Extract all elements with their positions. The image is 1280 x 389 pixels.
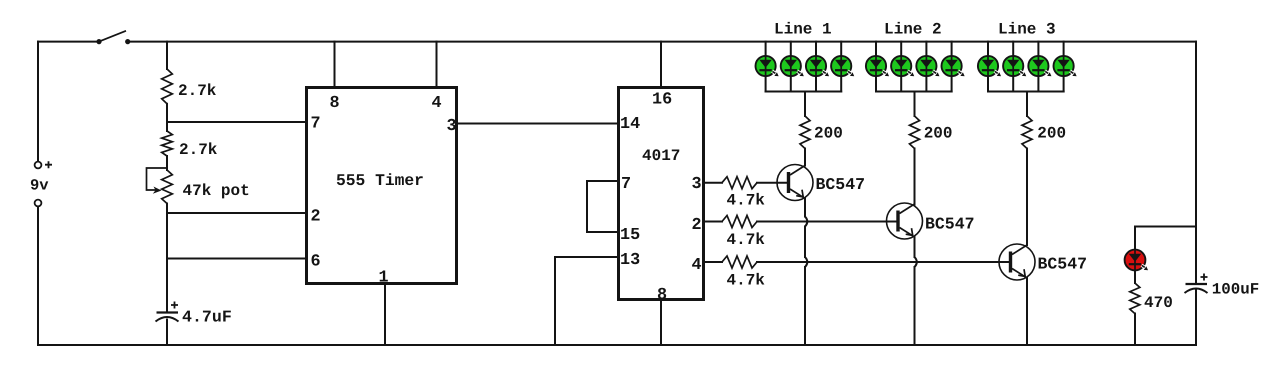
- svg-text:Line 3: Line 3: [998, 21, 1056, 39]
- svg-text:4: 4: [432, 94, 442, 113]
- svg-text:3: 3: [447, 117, 457, 136]
- svg-text:2: 2: [692, 216, 702, 235]
- svg-text:4.7k: 4.7k: [727, 192, 766, 210]
- svg-text:BC547: BC547: [1038, 255, 1088, 274]
- svg-text:47k pot: 47k pot: [183, 182, 250, 200]
- svg-text:8: 8: [330, 94, 340, 113]
- svg-text:BC547: BC547: [816, 175, 866, 194]
- svg-text:15: 15: [620, 226, 640, 245]
- svg-text:4.7k: 4.7k: [727, 272, 766, 290]
- svg-text:2: 2: [311, 208, 321, 227]
- svg-text:200: 200: [814, 125, 843, 143]
- svg-text:9v: 9v: [30, 176, 49, 194]
- svg-text:200: 200: [1037, 125, 1066, 143]
- svg-text:4017: 4017: [642, 147, 680, 165]
- svg-text:100uF: 100uF: [1212, 281, 1259, 299]
- svg-text:6: 6: [311, 253, 321, 272]
- svg-text:Line 2: Line 2: [884, 21, 942, 39]
- svg-text:13: 13: [620, 251, 640, 270]
- svg-text:7: 7: [311, 115, 321, 134]
- svg-text:555 Timer: 555 Timer: [336, 171, 424, 190]
- svg-text:2.7k: 2.7k: [178, 82, 217, 100]
- svg-text:470: 470: [1144, 294, 1173, 312]
- svg-text:4: 4: [692, 256, 702, 275]
- svg-text:8: 8: [657, 286, 667, 305]
- svg-text:16: 16: [652, 91, 672, 110]
- svg-text:2.7k: 2.7k: [179, 141, 218, 159]
- svg-text:14: 14: [620, 115, 640, 134]
- svg-text:Line 1: Line 1: [774, 21, 832, 39]
- svg-text:3: 3: [692, 175, 702, 194]
- svg-text:200: 200: [924, 125, 953, 143]
- svg-text:7: 7: [621, 175, 631, 194]
- svg-text:4.7k: 4.7k: [727, 231, 766, 249]
- svg-text:BC547: BC547: [925, 215, 975, 234]
- svg-text:1: 1: [379, 269, 389, 288]
- svg-text:4.7uF: 4.7uF: [182, 308, 232, 327]
